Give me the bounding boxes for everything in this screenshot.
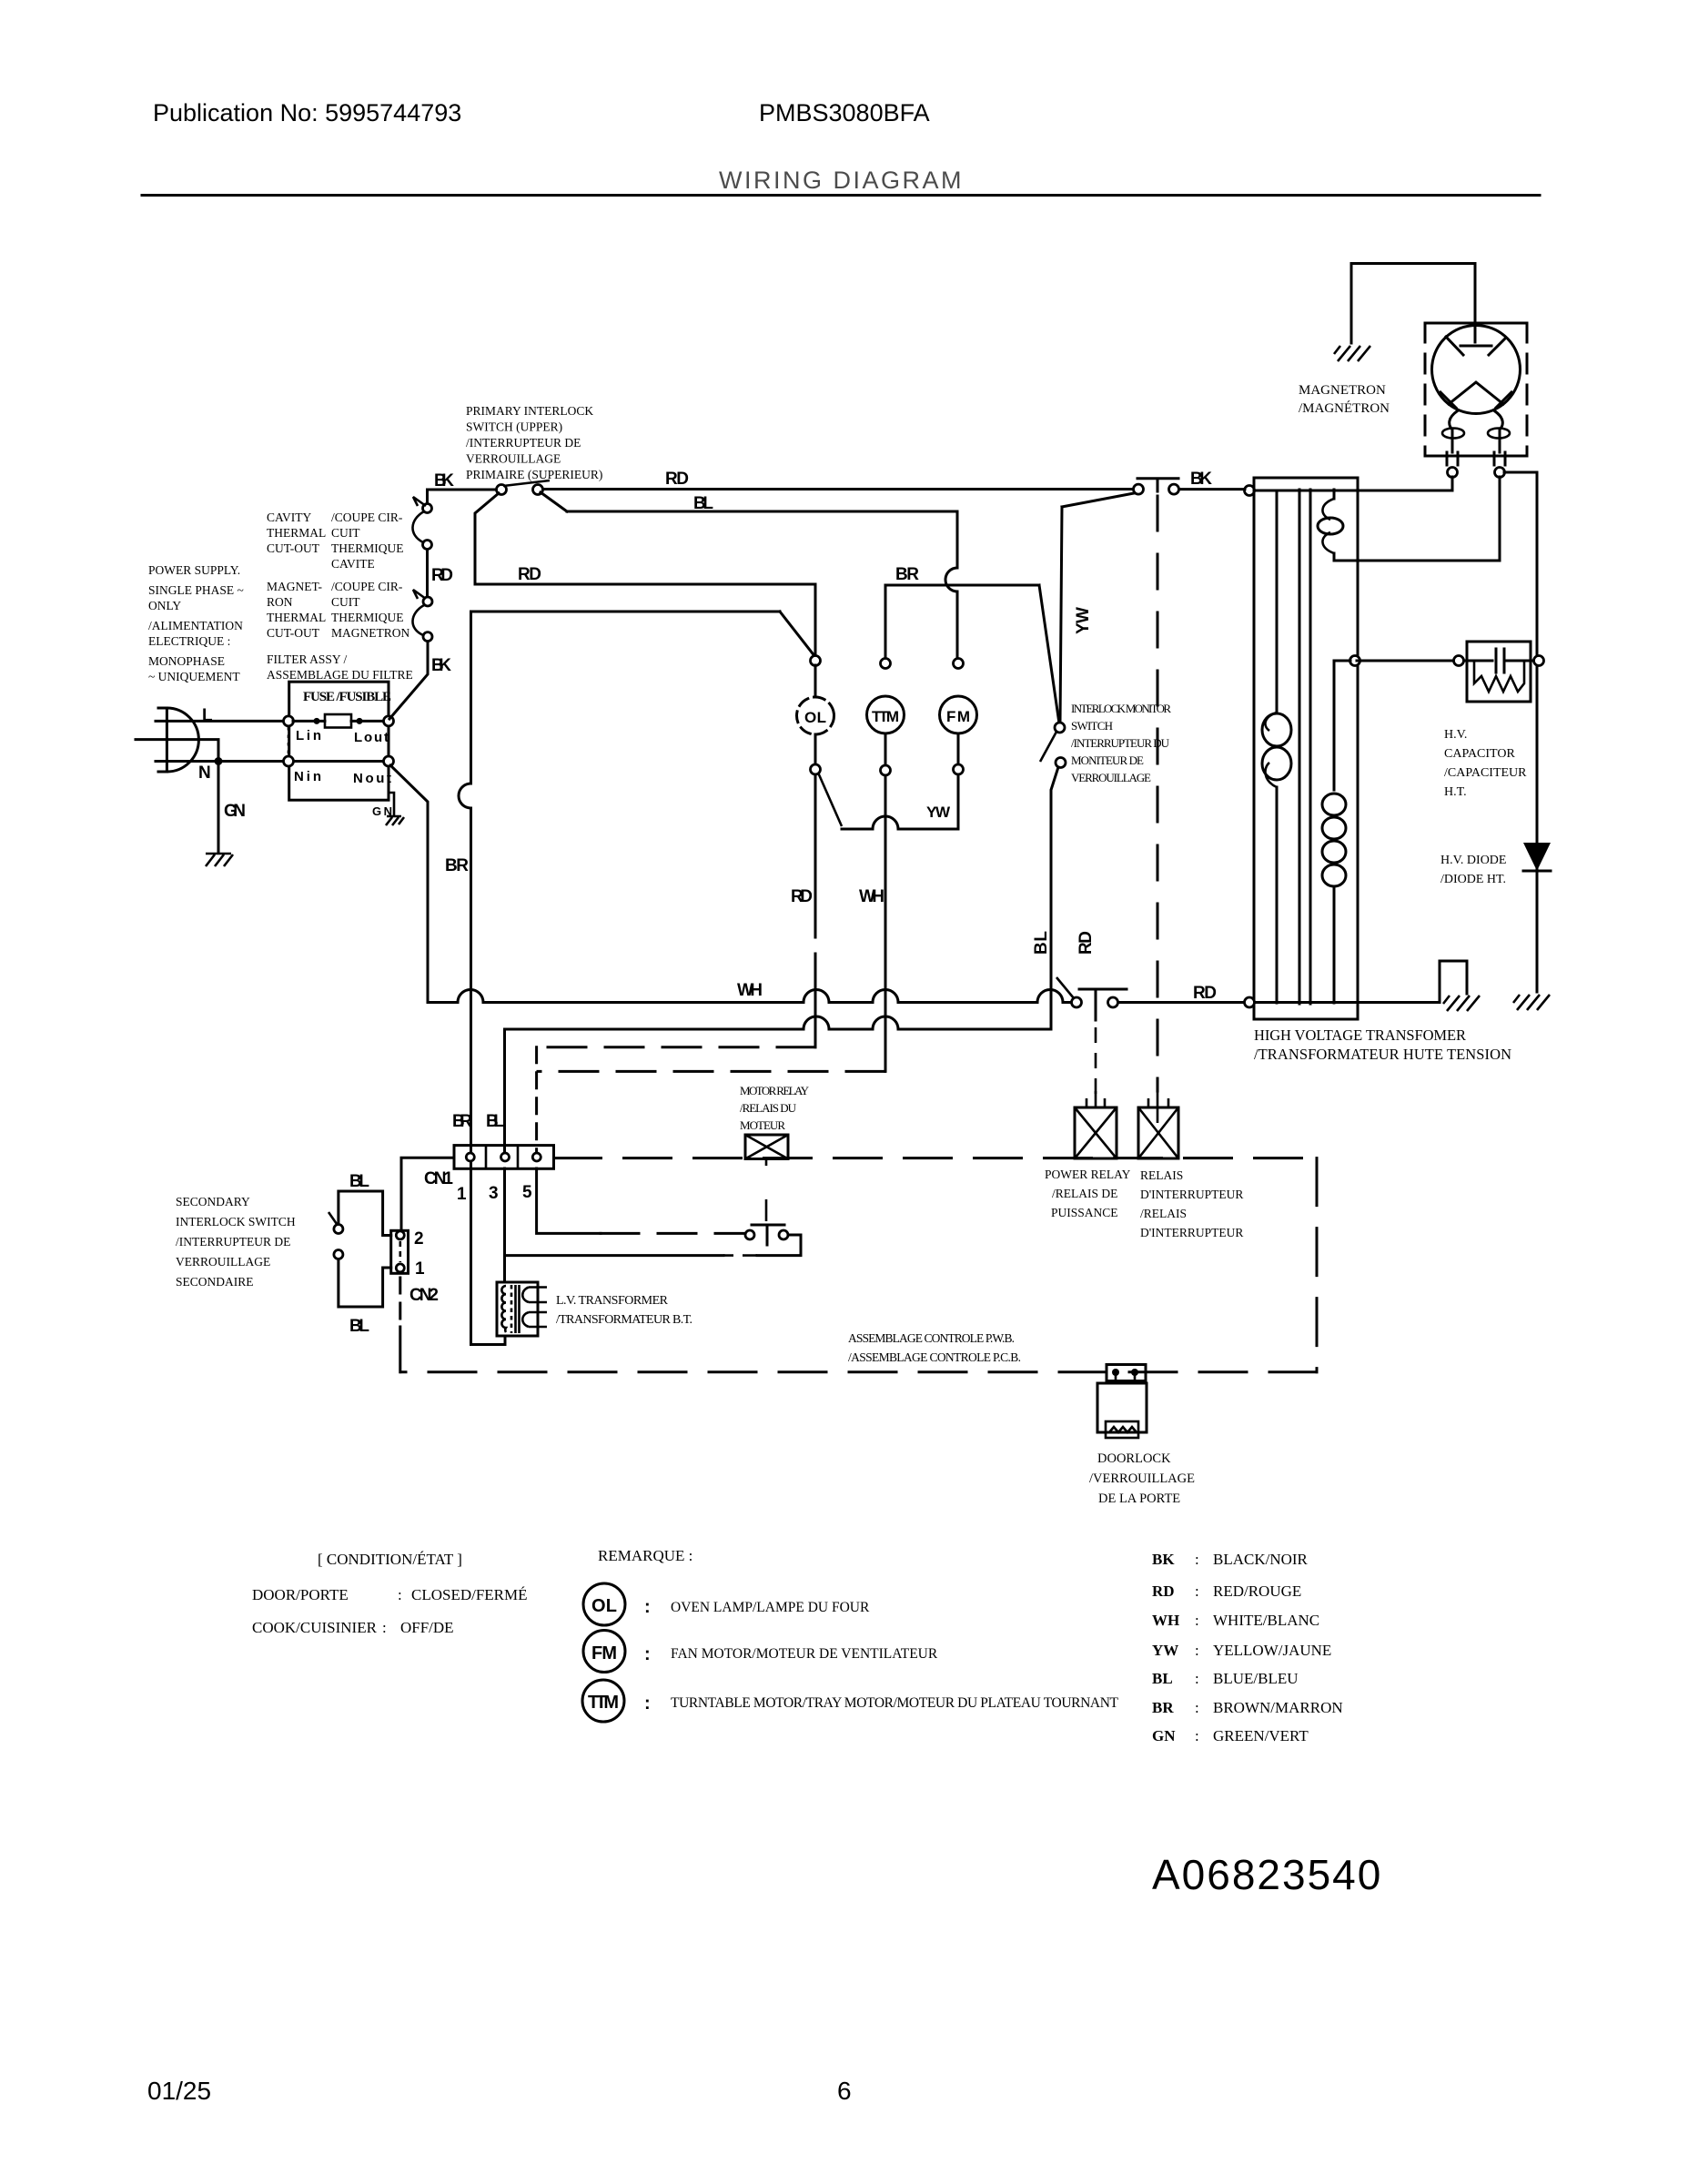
svg-text:1: 1 [457, 1185, 467, 1204]
power plug body [158, 708, 167, 772]
LV transformer box [497, 1282, 538, 1336]
svg-text:1: 1 [415, 1259, 425, 1279]
node capacitor left [1454, 656, 1464, 666]
svg-text:ELECTRIQUE :: ELECTRIQUE : [148, 634, 230, 648]
LVT secondary winding [522, 1288, 529, 1328]
svg-text:Nout: Nout [353, 771, 391, 786]
node TTM top [881, 659, 891, 669]
LVT core dashed [510, 1285, 513, 1333]
hop over TTM vertical [873, 816, 898, 829]
svg-text:PMBS3080BFA: PMBS3080BFA [759, 99, 930, 126]
svg-text:2: 2 [414, 1229, 424, 1249]
magnetron internal vanes [1440, 337, 1511, 408]
power relay 2 terminal ticks [1148, 1091, 1168, 1123]
BR wire to TTM corner [885, 584, 1039, 587]
svg-text:CN2: CN2 [409, 1286, 439, 1305]
svg-text:CAVITY: CAVITY [267, 511, 312, 524]
svg-text:FM: FM [591, 1643, 617, 1663]
svg-text:BR: BR [452, 1112, 472, 1131]
svg-text:GN: GN [372, 804, 392, 818]
svg-text:RELAIS: RELAIS [1140, 1168, 1183, 1182]
wire right filament down to HV secondary [1334, 477, 1500, 561]
ground (transformer hook) [1443, 996, 1480, 1011]
magnetron thermal cutout contact 2 [423, 632, 432, 642]
legend OL symbol [583, 1583, 625, 1625]
power relay 1 terminal ticks [1087, 1091, 1105, 1107]
door lock body [1097, 1383, 1147, 1432]
svg-text:VERROUILLAGE: VERROUILLAGE [466, 452, 561, 466]
power relay coil box 1 [1075, 1107, 1117, 1158]
wire transformer to HV capacitor [1357, 660, 1534, 662]
svg-text:CUIT: CUIT [331, 526, 360, 540]
svg-text:CAPACITOR: CAPACITOR [1444, 747, 1515, 761]
svg-text:SWITCH (UPPER): SWITCH (UPPER) [466, 420, 562, 434]
bottom RD bus to transformer and ground hook [1118, 961, 1467, 1003]
svg-text:TURNTABLE MOTOR/TRAY MOTOR/MOT: TURNTABLE MOTOR/TRAY MOTOR/MOTEUR DU PLA… [671, 1695, 1119, 1711]
svg-text::: : [1195, 1582, 1199, 1600]
HV diode symbol [1523, 843, 1551, 871]
monitor switch contact top [1055, 723, 1065, 733]
wires around OL [814, 665, 817, 764]
svg-text:H.V.: H.V. [1444, 728, 1467, 742]
node Nin [284, 756, 294, 766]
svg-text:RON: RON [267, 595, 293, 609]
svg-text:OL: OL [591, 1596, 617, 1616]
svg-text:BK: BK [434, 471, 454, 490]
svg-text:ASSEMBLAGE CONTROLE P.W.B.: ASSEMBLAGE CONTROLE P.W.B. [848, 1331, 1015, 1345]
motor relay contact T [752, 1225, 784, 1245]
svg-text:WH: WH [737, 981, 763, 1000]
ground (right bus) [1513, 995, 1550, 1010]
svg-text:/ALIMENTATION: /ALIMENTATION [148, 619, 243, 632]
svg-text:SWITCH: SWITCH [1071, 719, 1113, 733]
LVT primary winding [501, 1286, 506, 1332]
svg-text:RD: RD [1076, 931, 1096, 955]
node on transformer left edge [1245, 486, 1255, 496]
svg-text:WH: WH [859, 887, 884, 906]
interlock (lower) T symbol [1137, 479, 1178, 491]
svg-text:RD: RD [518, 565, 541, 584]
node OL top [811, 656, 821, 666]
small ground (Nout GN) [386, 816, 404, 825]
wire pin5 to motor relay contact [537, 1168, 601, 1233]
svg-text:BR: BR [445, 856, 469, 875]
node Nout [384, 756, 394, 766]
interlock lever to YW wire [1062, 493, 1134, 507]
transformer filament winding node [1350, 656, 1360, 666]
dotted link Lin-Nin [288, 727, 290, 756]
svg-text::: : [382, 1619, 387, 1636]
RD vertical OL to pin5 dash line [814, 774, 817, 1047]
svg-text:BL: BL [349, 1172, 369, 1191]
wire magnetron anode to ground [1351, 264, 1475, 344]
wire to transformer node [1179, 488, 1245, 490]
oven lamp OL [797, 697, 834, 734]
CN2 pin 2 [396, 1231, 404, 1239]
svg-text:CUT-OUT: CUT-OUT [267, 626, 320, 640]
svg-text:MAGNET-: MAGNET- [267, 580, 323, 593]
svg-text:/INTERRUPTEUR DU: /INTERRUPTEUR DU [1071, 736, 1170, 750]
svg-text:POWER RELAY: POWER RELAY [1045, 1168, 1131, 1181]
svg-text:H.T.: H.T. [1444, 785, 1467, 799]
svg-text:BR: BR [1152, 1699, 1174, 1716]
svg-text:DE LA PORTE: DE LA PORTE [1098, 1491, 1180, 1506]
svg-text:MOTEUR: MOTEUR [740, 1118, 785, 1132]
svg-text::: : [644, 1694, 651, 1714]
svg-text:DOOR/PORTE: DOOR/PORTE [252, 1586, 349, 1603]
primary interlock contact right [533, 485, 543, 495]
monitor switch lever [1040, 732, 1056, 762]
node capacitor right on bus [1534, 656, 1544, 666]
svg-text:MAGNETRON: MAGNETRON [331, 626, 409, 640]
fuse element [293, 720, 383, 723]
svg-text:FUSE /FUSIBLE: FUSE /FUSIBLE [303, 690, 391, 704]
svg-text:MONOPHASE: MONOPHASE [148, 654, 225, 668]
svg-text:N: N [198, 763, 211, 783]
svg-text:BL: BL [486, 1112, 504, 1131]
magnetron box [1425, 323, 1527, 456]
svg-text:REMARQUE :: REMARQUE : [598, 1547, 692, 1564]
node TTM bottom [881, 765, 891, 775]
svg-text:~ UNIQUEMENT: ~ UNIQUEMENT [148, 670, 240, 683]
svg-text:MAGNETRON: MAGNETRON [1299, 383, 1386, 398]
svg-text:Publication No: 5995744793: Publication No: 5995744793 [153, 99, 461, 126]
diagonal y672 wire to OL node [780, 612, 815, 657]
BR wire from Nout down [390, 765, 428, 998]
BL wire top [567, 511, 957, 513]
fan motor FM [940, 696, 977, 733]
filament terminal nodes [1448, 468, 1458, 478]
svg-text:CLOSED/FERMÉ: CLOSED/FERMÉ [411, 1586, 528, 1603]
node transformer bottom left [1245, 997, 1255, 1007]
LVT core solid lines [516, 1285, 520, 1333]
HV capacitor box [1467, 642, 1531, 702]
control board boundary top dash [554, 1157, 1318, 1159]
filament heater loops [1442, 429, 1464, 439]
svg-text:SINGLE PHASE ~: SINGLE PHASE ~ [148, 583, 244, 597]
CN1 pin 5 [532, 1153, 541, 1161]
BL wire monitor switch down [1051, 767, 1058, 1029]
svg-text:/TRANSFORMATEUR B.T.: /TRANSFORMATEUR B.T. [556, 1313, 692, 1327]
power relay contact lever [1056, 977, 1074, 998]
node Lin [284, 716, 294, 726]
CN1 connector box [454, 1146, 554, 1169]
wire between cutouts [426, 550, 429, 596]
svg-text:D'INTERRUPTEUR: D'INTERRUPTEUR [1140, 1188, 1243, 1201]
svg-text:THERMAL: THERMAL [267, 611, 326, 624]
pin5 vertical dashed [535, 1047, 538, 1153]
svg-text::: : [398, 1586, 402, 1603]
svg-text:A06823540: A06823540 [1152, 1851, 1382, 1898]
turntable motor TTM [867, 696, 905, 733]
node FM bottom [954, 764, 964, 774]
motor relay link ticks [765, 1159, 768, 1222]
CN1 pin 1 [466, 1153, 474, 1161]
svg-text:CAVITE: CAVITE [331, 557, 375, 571]
legend TTM symbol [582, 1680, 624, 1722]
ground (magnetron anode) [1334, 346, 1370, 361]
magnetron thermal cutout arc [412, 590, 426, 635]
svg-text:PUISSANCE: PUISSANCE [1051, 1206, 1118, 1219]
bus hop over WH [873, 990, 898, 1003]
door lock pin legs [1116, 1374, 1135, 1384]
bus hop over RD [804, 990, 829, 1003]
bleeder resistor [1474, 661, 1524, 692]
control board boundary right dash [1316, 1158, 1319, 1372]
wire cutout to Lout [389, 642, 428, 719]
svg-text:5: 5 [522, 1183, 532, 1202]
WH bus bottom [428, 998, 1071, 1003]
motor relay contact left [745, 1230, 754, 1239]
svg-text:BL: BL [693, 494, 713, 513]
svg-text:VERROUILLAGE: VERROUILLAGE [1071, 771, 1151, 784]
dash-dot line pin5 upper [537, 1046, 815, 1048]
node Lout [384, 716, 394, 726]
svg-text:YELLOW/JAUNE: YELLOW/JAUNE [1213, 1642, 1331, 1659]
door lock terminal block [1107, 1365, 1146, 1381]
svg-text:WIRING DIAGRAM: WIRING DIAGRAM [719, 167, 964, 194]
svg-text:FM: FM [946, 708, 970, 725]
svg-text:HIGH VOLTAGE TRANSFOMER: HIGH VOLTAGE TRANSFOMER [1254, 1026, 1466, 1044]
RD wire top [543, 488, 1133, 490]
CN2 connector box [391, 1230, 409, 1273]
svg-text:INTERLOCK MONITOR: INTERLOCK MONITOR [1071, 702, 1171, 715]
bus hop over BL [1037, 990, 1063, 1003]
magnetron thermal cutout contact 1 [423, 597, 432, 606]
svg-text:/INTERRUPTEUR DE: /INTERRUPTEUR DE [466, 436, 581, 450]
svg-text:ONLY: ONLY [148, 599, 181, 612]
svg-text:GREEN/VERT: GREEN/VERT [1213, 1727, 1309, 1744]
lower BL line y1131 [505, 1028, 1052, 1031]
svg-text:Nin: Nin [294, 769, 321, 784]
lower line hop over WH [873, 1016, 898, 1029]
LVT bottom stub [500, 1336, 505, 1345]
svg-text:L.V. TRANSFORMER: L.V. TRANSFORMER [556, 1294, 669, 1308]
svg-text:TTM: TTM [588, 1693, 619, 1713]
dotted link Lout-Nout [388, 727, 390, 756]
door lock latch detail [1106, 1421, 1138, 1438]
svg-text:WH: WH [1152, 1612, 1179, 1629]
svg-text:BL: BL [1152, 1670, 1173, 1687]
wire N to fuse [156, 760, 283, 763]
svg-text:TTM: TTM [872, 708, 899, 725]
svg-text:/TRANSFORMATEUR HUTE TENSION: /TRANSFORMATEUR HUTE TENSION [1254, 1046, 1511, 1063]
WH vertical TTM down [884, 775, 887, 1071]
svg-text:OL: OL [804, 709, 826, 726]
hop on BR vertical [459, 784, 471, 808]
svg-text:01/25: 01/25 [147, 2077, 211, 2105]
interlock (lower) contact left [1134, 484, 1144, 494]
svg-text:ASSEMBLAGE DU FILTRE: ASSEMBLAGE DU FILTRE [267, 668, 413, 682]
fuse assembly box [289, 682, 389, 800]
svg-text::: : [1195, 1642, 1199, 1659]
interlock (lower) contact right [1169, 484, 1179, 494]
hop FM over BR wire [945, 568, 957, 591]
BR pickup wire y672 [471, 612, 781, 784]
svg-text::: : [644, 1644, 651, 1664]
magnetron filament legs [1450, 411, 1503, 452]
svg-text:/RELAIS DE: /RELAIS DE [1052, 1187, 1117, 1200]
svg-text:6: 6 [837, 2077, 852, 2105]
svg-text:RD: RD [1193, 984, 1217, 1003]
svg-text:BL: BL [349, 1317, 369, 1336]
cavity thermal cutout contact 2 [423, 541, 432, 550]
wires around TTM [884, 733, 887, 765]
svg-text:/DIODE HT.: /DIODE HT. [1440, 873, 1506, 886]
TTM vertical upper [884, 585, 887, 659]
svg-text::: : [1195, 1551, 1199, 1568]
svg-text:SECONDAIRE: SECONDAIRE [176, 1275, 254, 1289]
monitor switch contact bottom [1056, 758, 1066, 768]
header rule [142, 194, 1540, 197]
RD wire middle with corner up to interlock [475, 493, 815, 584]
svg-text:H.V. DIODE: H.V. DIODE [1440, 854, 1506, 867]
svg-text:/RELAIS DU: /RELAIS DU [740, 1101, 797, 1115]
svg-text:THERMIQUE: THERMIQUE [331, 541, 404, 555]
svg-text:MONITEUR DE: MONITEUR DE [1071, 753, 1144, 767]
motor relay coil box [745, 1135, 788, 1159]
svg-text:/RELAIS: /RELAIS [1140, 1207, 1187, 1220]
svg-text:/CAPACITEUR: /CAPACITEUR [1444, 766, 1527, 780]
svg-text:INTERLOCK SWITCH: INTERLOCK SWITCH [176, 1215, 296, 1228]
door dashed line [1157, 496, 1159, 1091]
svg-text:CUIT: CUIT [331, 595, 360, 609]
bus hop over BR [458, 990, 483, 1003]
svg-text:CN1: CN1 [424, 1169, 453, 1188]
secondary interlock contact top [334, 1225, 343, 1234]
capacitor plates [1496, 649, 1504, 672]
CN2 pin 1 [396, 1264, 404, 1272]
svg-text:PRIMAIRE (SUPERIEUR): PRIMAIRE (SUPERIEUR) [466, 468, 602, 481]
transformer HV secondary winding [1333, 490, 1336, 561]
transformer core lines [1299, 490, 1310, 1004]
svg-text:/VERROUILLAGE: /VERROUILLAGE [1089, 1471, 1195, 1486]
svg-text:POWER SUPPLY.: POWER SUPPLY. [148, 563, 240, 577]
BR diagonal to monitor switch [1039, 585, 1059, 723]
svg-text:RD: RD [791, 887, 813, 906]
svg-text:GN: GN [224, 802, 246, 821]
svg-text:OFF/DE: OFF/DE [400, 1619, 454, 1636]
BR vertical below CN1 to LVT [471, 1161, 501, 1345]
power relay coil box 2 [1138, 1107, 1178, 1158]
cavity thermal cutout contact 1 [423, 504, 432, 513]
svg-text:THERMIQUE: THERMIQUE [331, 611, 404, 624]
svg-text:BR: BR [895, 565, 919, 584]
svg-text:Lout: Lout [354, 730, 389, 745]
power relay contact left [1072, 997, 1082, 1007]
ground (GN) [206, 854, 233, 866]
svg-text:RED/ROUGE: RED/ROUGE [1213, 1582, 1301, 1600]
CN1 stub to CN2 drop [401, 1158, 454, 1230]
secondary interlock contact bottom [334, 1250, 343, 1259]
wire right filament to right bus [1504, 472, 1537, 992]
dash-dot line pin5 lower to TTM [538, 1070, 884, 1073]
CN1 pin 3 [501, 1153, 510, 1161]
lower line hop over RD [804, 1016, 829, 1029]
YW vertical to monitor switch [1060, 507, 1062, 723]
svg-text:RD: RD [1152, 1582, 1175, 1600]
svg-text::: : [644, 1597, 651, 1617]
wire Nout GN stub [389, 766, 394, 815]
svg-text:Lin: Lin [296, 728, 321, 743]
FM vertical to node [956, 591, 959, 659]
magnetron circle [1432, 326, 1521, 414]
wire motor relay contact to BL line [505, 1235, 801, 1256]
svg-text:DOORLOCK: DOORLOCK [1097, 1451, 1171, 1466]
secondary interlock lever [329, 1212, 337, 1224]
wire Nin to Nout [293, 760, 383, 763]
wire BK corner to primary interlock [428, 490, 497, 503]
svg-text:BK: BK [431, 656, 451, 675]
svg-text:COOK/CUISINIER: COOK/CUISINIER [252, 1619, 378, 1636]
junction dot N [215, 757, 223, 765]
svg-text::: : [1195, 1670, 1199, 1687]
power relay contact T symbol [1079, 989, 1127, 1020]
primary interlock lever [503, 480, 550, 486]
svg-text:VERROUILLAGE: VERROUILLAGE [176, 1255, 270, 1269]
diagonal to BL wire [541, 492, 567, 511]
svg-text:FILTER ASSY /: FILTER ASSY / [267, 652, 348, 666]
svg-text:FAN MOTOR/MOTEUR DE VENTILATEU: FAN MOTOR/MOTEUR DE VENTILATEUR [671, 1646, 938, 1662]
svg-text:BROWN/MARRON: BROWN/MARRON [1213, 1699, 1343, 1716]
secondary interlock switch loop [339, 1191, 391, 1307]
transformer primary winding [1276, 490, 1279, 1003]
BL vertical to CN1 pin3 [503, 1029, 506, 1153]
control board boundary bottom dash [400, 1370, 1317, 1373]
transformer filament winding [1334, 661, 1350, 1003]
svg-text:SECONDARY: SECONDARY [176, 1195, 250, 1208]
RD wire corner down to OL node [814, 584, 817, 656]
svg-text:/MAGNÉTRON: /MAGNÉTRON [1299, 400, 1390, 416]
svg-text:GN: GN [1152, 1727, 1176, 1744]
svg-text:OVEN LAMP/LAMPE DU FOUR: OVEN LAMP/LAMPE DU FOUR [671, 1600, 870, 1615]
svg-text:/INTERRUPTEUR DE: /INTERRUPTEUR DE [176, 1235, 290, 1249]
svg-text:YW: YW [1152, 1642, 1178, 1659]
magnetron anode bar [1461, 345, 1491, 348]
svg-text:D'INTERRUPTEUR: D'INTERRUPTEUR [1140, 1226, 1243, 1239]
svg-text:PRIMARY INTERLOCK: PRIMARY INTERLOCK [466, 404, 593, 418]
legend FM symbol [583, 1631, 625, 1673]
motor relay contact right [779, 1230, 788, 1239]
svg-text:YW: YW [926, 804, 951, 821]
svg-text:YW: YW [1074, 607, 1093, 634]
svg-text:BL: BL [1032, 931, 1051, 955]
svg-text:MOTOR RELAY: MOTOR RELAY [740, 1084, 810, 1097]
svg-text::: : [1195, 1699, 1199, 1716]
FM wire down and left to OL lever [842, 774, 958, 829]
CN2 pin1 down dashed to boundary [399, 1278, 401, 1327]
wire L to fuse [156, 720, 283, 723]
svg-text:BLACK/NOIR: BLACK/NOIR [1213, 1551, 1309, 1568]
svg-text:/COUPE CIR-: /COUPE CIR- [331, 580, 403, 593]
BR vertical to CN1 pin1 [470, 808, 472, 1153]
svg-text:CUT-OUT: CUT-OUT [267, 541, 320, 555]
BL vertical below CN1 [503, 1168, 506, 1282]
node FM top [954, 659, 964, 669]
svg-text:BK: BK [1152, 1551, 1175, 1568]
node OL bottom [811, 764, 821, 774]
FM vertical from BL wire [956, 511, 959, 568]
power relay contact link dash [1095, 1027, 1097, 1104]
LVT secondary stubs [529, 1288, 547, 1328]
svg-text:THERMAL: THERMAL [267, 526, 326, 540]
HV transformer box [1254, 478, 1358, 1019]
svg-text:WHITE/BLANC: WHITE/BLANC [1213, 1612, 1319, 1629]
cavity thermal cutout arc [412, 497, 426, 542]
svg-text::: : [1195, 1612, 1199, 1629]
power relay contact right [1108, 997, 1118, 1007]
svg-text::: : [1195, 1727, 1199, 1744]
